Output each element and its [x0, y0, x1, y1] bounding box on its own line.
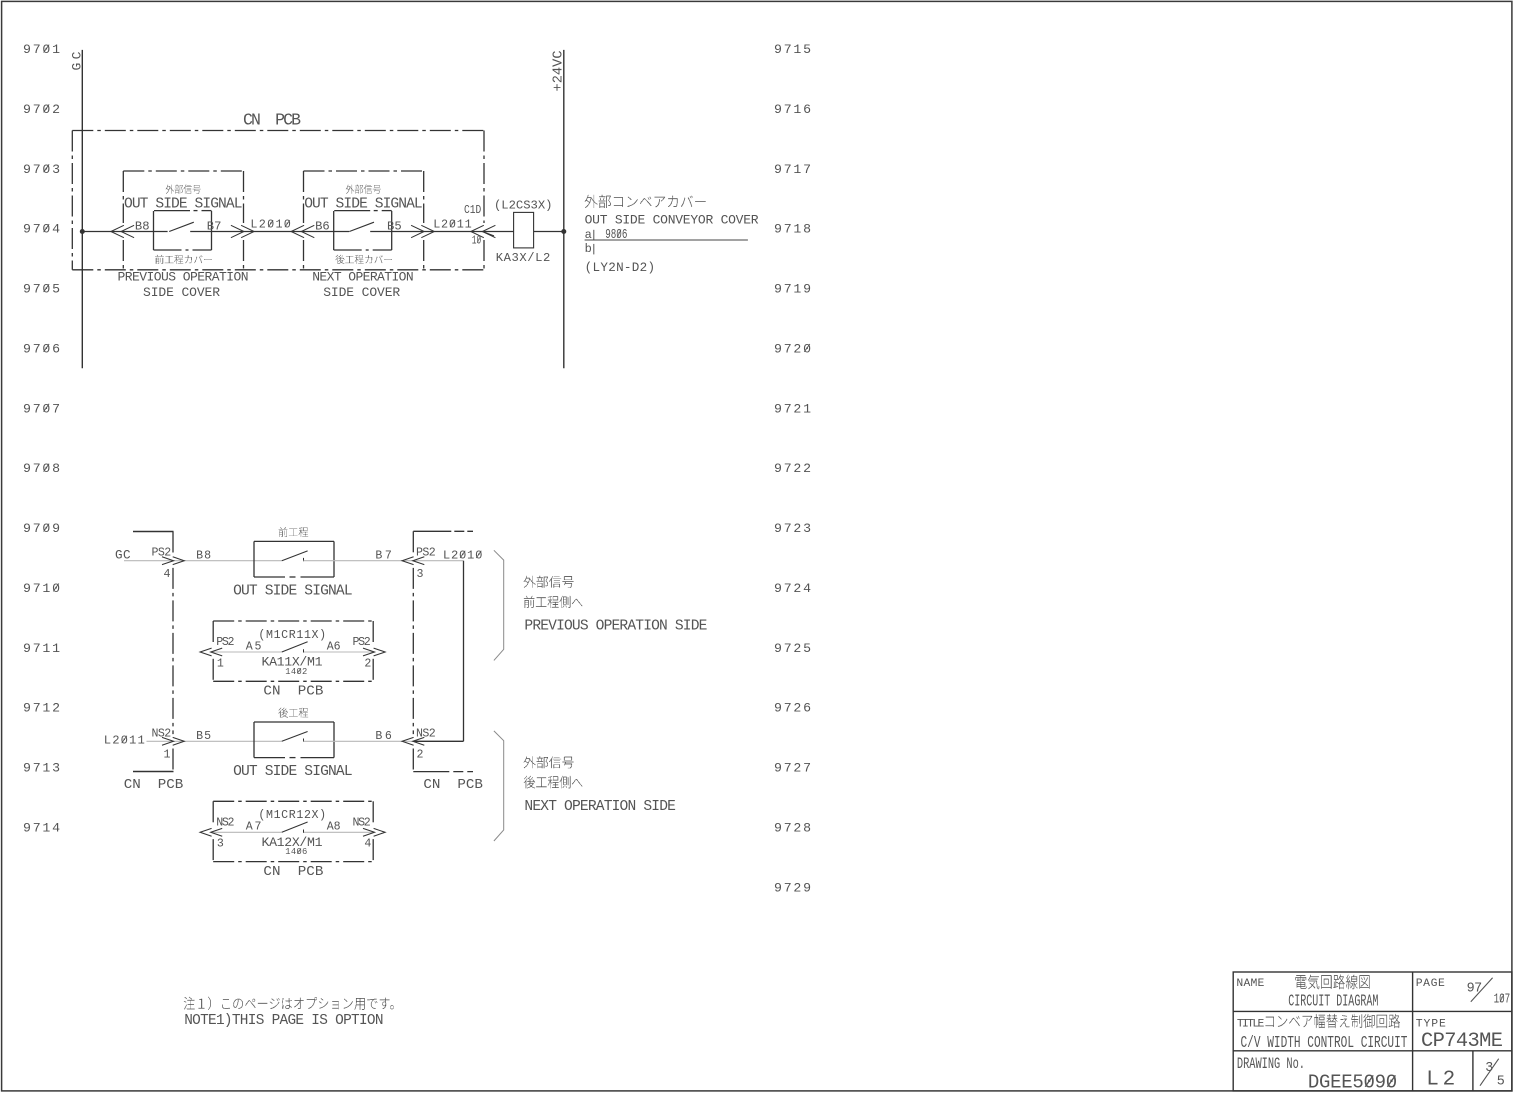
- contact blade 2: [349, 222, 374, 231]
- svg-text:b: b: [585, 242, 592, 256]
- svg-text:CN PCB: CN PCB: [263, 684, 323, 700]
- connector chevrons unit 1 right: [241, 225, 254, 237]
- wire B5 to coil (L2011): [370, 231, 513, 233]
- svg-text:NAME: NAME: [1236, 978, 1264, 990]
- wire L2010 loop down to B6: [463, 561, 465, 742]
- svg-text:C1D: C1D: [464, 204, 481, 217]
- svg-text:2: 2: [417, 748, 424, 761]
- svg-text:CN PCB: CN PCB: [243, 111, 301, 130]
- label 外部信号 / 後工程側へ / NEXT OPERATION SIDE: [524, 756, 574, 768]
- connector chevrons unit 2 left: [291, 225, 304, 237]
- svg-text:9709: 9709: [23, 521, 60, 536]
- svg-text:DRAWING No.: DRAWING No.: [1237, 1056, 1305, 1074]
- svg-text:SIDE COVER: SIDE COVER: [143, 285, 220, 300]
- connector column right (PS2/NS2) boundary: [412, 531, 414, 553]
- svg-text:(LY2N-D2): (LY2N-D2): [585, 261, 656, 275]
- svg-text:1402: 1402: [285, 667, 307, 677]
- junction on GC rail: [80, 229, 85, 234]
- svg-text:9724: 9724: [774, 581, 811, 596]
- svg-text:NEXT OPERATION: NEXT OPERATION: [312, 269, 414, 284]
- connector chevrons unit 2 right: [421, 225, 434, 237]
- label 前工程: [279, 527, 309, 537]
- svg-text:A7: A7: [246, 821, 262, 834]
- svg-text:9718: 9718: [774, 222, 811, 237]
- svg-text:2: 2: [364, 657, 371, 670]
- svg-text:9719: 9719: [774, 282, 811, 297]
- connector column left (PS2/NS2) boundary: [172, 532, 174, 554]
- svg-text:9702: 9702: [23, 102, 60, 117]
- svg-text:TITLE: TITLE: [1237, 1018, 1265, 1030]
- label 外部コンベアカバー / OUT SIDE CONVEYOR COVER: [585, 195, 706, 208]
- svg-text:NS2: NS2: [152, 727, 172, 740]
- svg-text:5: 5: [1497, 1075, 1505, 1090]
- svg-text:9703: 9703: [23, 162, 60, 177]
- svg-text:10: 10: [472, 234, 482, 247]
- wire GC to contact B8: [82, 231, 167, 233]
- svg-text:L2010: L2010: [443, 549, 483, 563]
- svg-text:L2011: L2011: [104, 734, 145, 748]
- contact blade 1: [169, 222, 194, 231]
- wire B7 to B6 (L2010): [190, 231, 349, 233]
- svg-text:9725: 9725: [774, 641, 811, 656]
- svg-text:9701: 9701: [23, 42, 60, 57]
- note 1 (this page is option): [184, 997, 394, 1010]
- svg-text:9726: 9726: [774, 701, 811, 716]
- wire through relay contact KA12X/M1: [213, 831, 282, 833]
- net GC rail: [81, 50, 83, 368]
- label 後工程カバー: [336, 255, 392, 264]
- wire to right connector: [304, 560, 464, 562]
- contact blade: [282, 551, 308, 561]
- svg-text:(M1CR12X): (M1CR12X): [258, 809, 326, 822]
- svg-text:9711: 9711: [23, 641, 60, 656]
- svg-text:9716: 9716: [774, 102, 811, 117]
- svg-text:107: 107: [1494, 992, 1511, 1007]
- svg-text:A5: A5: [246, 640, 262, 653]
- connector pin PS2 4 (left): [173, 557, 185, 565]
- label 後工程: [279, 708, 309, 718]
- svg-text:PREVIOUS OPERATION SIDE: PREVIOUS OPERATION SIDE: [524, 619, 707, 635]
- svg-text:9713: 9713: [23, 761, 60, 776]
- svg-text:L2011: L2011: [433, 218, 472, 232]
- svg-text:9704: 9704: [23, 222, 60, 237]
- bracket previous operation side: [494, 550, 504, 660]
- svg-text:NOTE1)THIS PAGE IS OPTION: NOTE1)THIS PAGE IS OPTION: [184, 1013, 383, 1029]
- wire through relay contact KA11X/M1: [213, 651, 282, 653]
- svg-text:9721: 9721: [774, 401, 811, 416]
- svg-text:DGEE5090: DGEE5090: [1308, 1072, 1397, 1093]
- pin C1D: [464, 204, 481, 217]
- svg-text:C/V WIDTH CONTROL CIRCUIT: C/V WIDTH CONTROL CIRCUIT: [1241, 1034, 1408, 1053]
- svg-text:1: 1: [164, 748, 171, 761]
- svg-text:9720: 9720: [774, 341, 811, 356]
- connector chevrons KA11X/M1 left: [200, 648, 212, 656]
- cover switch unit 1 enclosure: [123, 170, 243, 172]
- connector pin PS2 3 (right): [402, 557, 414, 565]
- svg-text:A8: A8: [327, 821, 341, 834]
- svg-text:A6: A6: [327, 640, 341, 653]
- title block frame: [1233, 972, 1512, 1091]
- contact blade KA12X/M1: [282, 822, 308, 832]
- svg-text:9706: 9706: [23, 341, 60, 356]
- label 外部信号: [166, 185, 201, 194]
- svg-text:9728: 9728: [774, 820, 811, 835]
- label 前工程カバー: [155, 255, 212, 264]
- svg-text:CN PCB: CN PCB: [124, 777, 184, 793]
- svg-text:NS2: NS2: [216, 816, 234, 829]
- svg-text:OUT SIDE SIGNAL: OUT SIDE SIGNAL: [233, 764, 353, 780]
- svg-text:9714: 9714: [23, 820, 60, 835]
- svg-text:PS2: PS2: [416, 547, 436, 560]
- svg-text:(L2CS3X): (L2CS3X): [494, 199, 553, 213]
- svg-text:9717: 9717: [774, 162, 811, 177]
- svg-text:B8: B8: [135, 220, 150, 234]
- svg-text:NS2: NS2: [416, 727, 436, 740]
- svg-text:4: 4: [164, 568, 171, 581]
- svg-text:PAGE: PAGE: [1416, 978, 1445, 990]
- connector pin NS2 2 (right): [402, 737, 414, 745]
- svg-text:B8: B8: [196, 549, 211, 562]
- svg-text:NS2: NS2: [353, 816, 371, 829]
- svg-text:PREVIOUS OPERATION: PREVIOUS OPERATION: [118, 269, 249, 284]
- svg-text:CP743ME: CP743ME: [1421, 1030, 1503, 1053]
- relay contact KA12X/M1 enclosure: [213, 800, 373, 802]
- svg-text:9722: 9722: [774, 461, 811, 476]
- svg-text:KA3X/L2: KA3X/L2: [496, 251, 551, 265]
- title block DRAWING No.: DGEE5090: [1237, 1056, 1305, 1074]
- svg-text:9712: 9712: [23, 701, 60, 716]
- switch box 2: [334, 210, 370, 212]
- svg-text:1: 1: [217, 657, 224, 670]
- svg-text:+24VC: +24VC: [552, 51, 567, 92]
- junction on +24VC rail: [561, 229, 566, 234]
- pin 10: [472, 234, 482, 247]
- connector chevrons KA11X/M1 right: [374, 648, 386, 656]
- svg-text:OUT SIDE SIGNAL: OUT SIDE SIGNAL: [233, 583, 353, 599]
- svg-text:9723: 9723: [774, 521, 811, 536]
- svg-text:PS2: PS2: [353, 636, 371, 649]
- net +24VC rail: [563, 50, 565, 368]
- svg-text:OUT SIDE CONVEYOR COVER: OUT SIDE CONVEYOR COVER: [585, 213, 759, 228]
- svg-text:9710: 9710: [23, 581, 60, 596]
- svg-text:CN PCB: CN PCB: [423, 777, 483, 793]
- svg-text:L2010: L2010: [250, 218, 291, 232]
- relay contact KA11X/M1 enclosure: [213, 620, 373, 622]
- svg-text:9705: 9705: [23, 282, 60, 297]
- svg-text:(M1CR11X): (M1CR11X): [258, 629, 326, 642]
- connector chevrons KA12X/M1 left: [200, 828, 212, 836]
- svg-text:CN PCB: CN PCB: [263, 864, 323, 880]
- svg-text:PS2: PS2: [152, 547, 172, 560]
- connector chevrons KA12X/M1 right: [374, 828, 386, 836]
- bracket next operation side: [494, 731, 504, 841]
- wire to right connector: [304, 740, 464, 742]
- svg-text:97: 97: [1467, 981, 1483, 996]
- svg-text:B5: B5: [387, 220, 402, 234]
- connector chevrons unit 1 left: [111, 225, 124, 237]
- svg-text:3: 3: [417, 568, 424, 581]
- svg-text:9707: 9707: [23, 401, 60, 416]
- svg-text:PS2: PS2: [216, 636, 234, 649]
- svg-text:SIDE COVER: SIDE COVER: [323, 285, 400, 300]
- svg-text:B5: B5: [196, 730, 211, 743]
- svg-text:3: 3: [217, 838, 224, 851]
- svg-text:9806: 9806: [605, 228, 627, 243]
- switch box OUT SIDE SIGNAL 1: [254, 540, 334, 542]
- svg-text:L2: L2: [1426, 1069, 1455, 1092]
- cover switch unit 2 enclosure: [304, 170, 424, 172]
- svg-text:9715: 9715: [774, 42, 811, 57]
- enclosure CN PCB top: [72, 130, 484, 132]
- contact blade KA11X/M1: [282, 642, 308, 652]
- svg-text:TYPE: TYPE: [1416, 1018, 1446, 1030]
- svg-text:4: 4: [364, 838, 371, 851]
- wire into left connector: [147, 740, 282, 742]
- svg-text:1406: 1406: [285, 847, 307, 857]
- switch box OUT SIDE SIGNAL 2: [254, 721, 334, 723]
- label 外部信号 / 前工程側へ / PREVIOUS OPERATION SIDE: [524, 576, 574, 588]
- svg-text:CIRCUIT DIAGRAM: CIRCUIT DIAGRAM: [1288, 992, 1378, 1011]
- connector chevrons at CN PCB right edge (C1D-10): [471, 225, 484, 237]
- svg-text:9729: 9729: [774, 880, 811, 895]
- wire into left connector: [124, 560, 282, 562]
- connector pin NS2 1 (left): [173, 737, 185, 745]
- switch box 1: [154, 210, 190, 212]
- label 外部信号: [346, 185, 381, 194]
- svg-text:NEXT OPERATION SIDE: NEXT OPERATION SIDE: [524, 799, 676, 815]
- svg-text:9727: 9727: [774, 761, 811, 776]
- svg-text:9708: 9708: [23, 461, 60, 476]
- wire coil to +24VC rail: [534, 231, 564, 233]
- relay coil KA3X/L2 (L2CS3X): [514, 212, 534, 248]
- svg-text:B7: B7: [207, 220, 222, 234]
- svg-text:B6: B6: [315, 220, 330, 234]
- contact blade: [282, 732, 308, 742]
